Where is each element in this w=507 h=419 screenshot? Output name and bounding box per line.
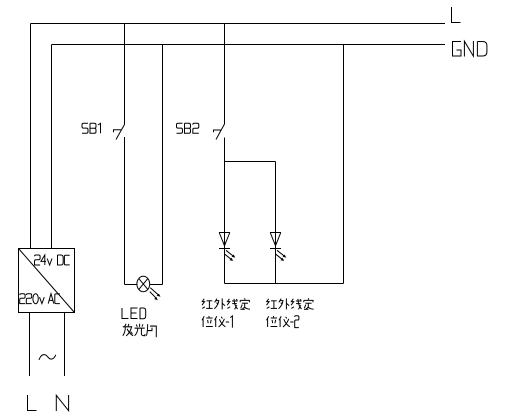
power supply U1 box: [19, 249, 75, 313]
wire L rail: [31, 23, 446, 25]
rail label GND: [452, 41, 487, 57]
wire AC input left lead: [29, 313, 31, 377]
label LED: [122, 308, 146, 319]
wire SB2 branch bottom through D1: [224, 138, 226, 284]
lamp light ray 1: [150, 288, 160, 297]
wire lamp right lead: [150, 284, 163, 286]
diode D2 symbol: [270, 233, 281, 249]
lamp EL circle: [137, 276, 150, 291]
lamp light ray 2: [150, 292, 158, 301]
switch SB2 label: [177, 123, 199, 133]
wire GND rail: [52, 44, 446, 46]
wire left drop from GND rail to power supply: [51, 45, 53, 249]
main line work: [19, 24, 446, 377]
wire AC input right lead: [64, 313, 66, 377]
U1 label 220v AC: [20, 294, 60, 304]
label 红外线定位仪-1: [202, 298, 250, 327]
diode D1 arrow 2: [225, 254, 233, 261]
AC source tilde symbol: [39, 355, 56, 360]
wire left drop from L rail to power supply: [30, 24, 32, 249]
wire lamp left lead: [125, 284, 138, 286]
wire D2 branch vertical: [275, 162, 277, 284]
diode D1 symbol: [219, 233, 230, 249]
switch SB1 actuator tick: [114, 130, 122, 133]
switch SB2 blade: [216, 124, 225, 140]
U1 label 24v DC: [35, 255, 70, 265]
terminal label N: [56, 395, 68, 411]
wire SB2 branch top: [224, 24, 226, 125]
label 红外线定位仪-2: [267, 298, 314, 327]
wire bottom return: [225, 283, 344, 285]
switch SB2 actuator tick: [214, 130, 222, 132]
lamp EL cross: [139, 279, 148, 290]
terminal label L: [28, 395, 37, 411]
rail label L: [451, 7, 460, 23]
power supply U1 diagonal: [19, 249, 75, 313]
wire right return to GND rail: [343, 45, 345, 284]
diode D1 arrow 1: [226, 250, 235, 257]
label 发光片: [123, 324, 157, 338]
switch SB1 label: [82, 123, 101, 133]
diode D2 arrow 2: [276, 254, 284, 261]
wire lamp branch to GND rail: [162, 45, 164, 285]
switch SB1 blade: [116, 125, 125, 140]
wire branch to D2 horizontal: [225, 161, 276, 163]
diode D2 arrow 1: [277, 250, 286, 257]
wire SB1 branch top: [124, 24, 126, 125]
wire SB1 branch bottom: [124, 137, 126, 285]
